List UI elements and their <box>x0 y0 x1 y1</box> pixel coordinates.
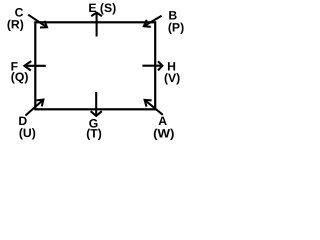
svg-text:(U): (U) <box>19 126 36 140</box>
svg-text:(P): (P) <box>168 21 184 35</box>
svg-text:(T): (T) <box>86 127 102 141</box>
svg-text:(W): (W) <box>153 127 174 141</box>
svg-text:E (S): E (S) <box>88 1 116 15</box>
svg-text:(V): (V) <box>164 71 180 85</box>
svg-text:(Q): (Q) <box>11 70 29 84</box>
svg-text:(R): (R) <box>7 18 24 32</box>
